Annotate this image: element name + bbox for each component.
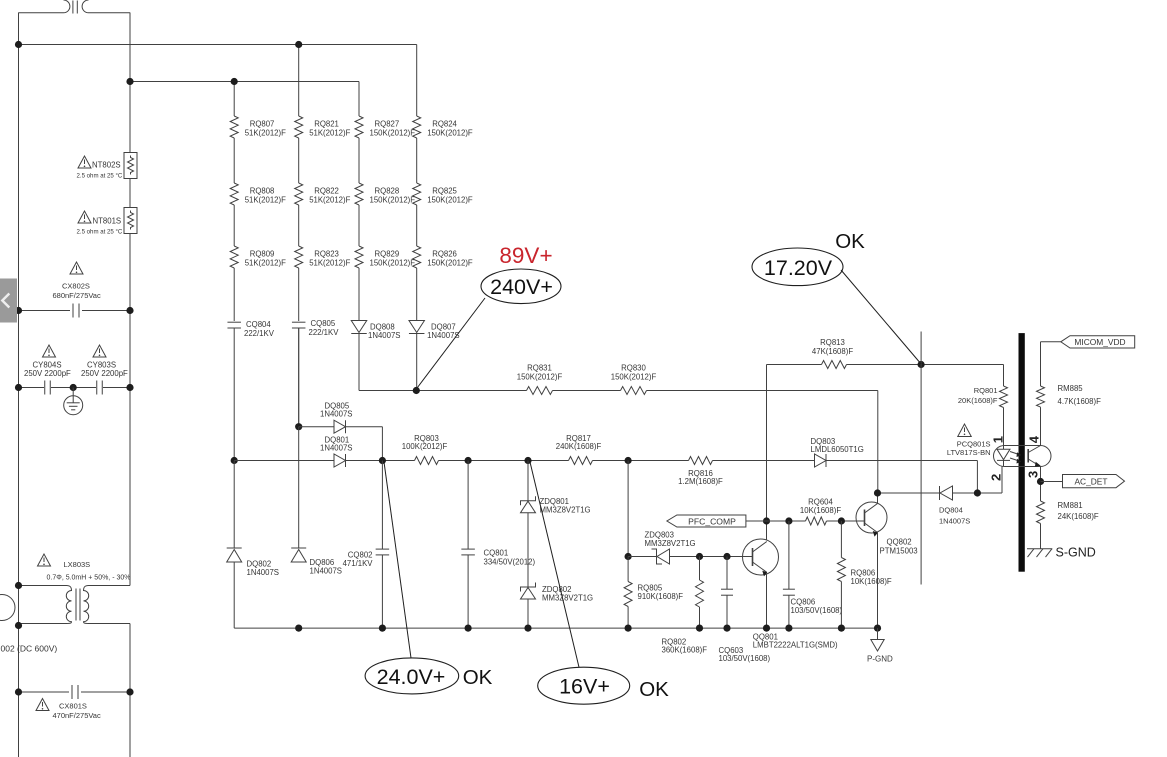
svg-text:RQ824: RQ824 xyxy=(432,120,457,129)
svg-text:RQ826: RQ826 xyxy=(432,250,457,259)
svg-text:1N4007S: 1N4007S xyxy=(247,568,280,577)
svg-text:51K(2012)F: 51K(2012)F xyxy=(245,258,286,267)
svg-text:RQ813: RQ813 xyxy=(820,338,845,347)
svg-text:471/1KV: 471/1KV xyxy=(343,559,374,568)
svg-text:10K(1608)F: 10K(1608)F xyxy=(851,577,892,586)
svg-text:PTM15003: PTM15003 xyxy=(880,547,918,556)
svg-text:150K(2012)F: 150K(2012)F xyxy=(427,258,473,267)
svg-text:RQ831: RQ831 xyxy=(527,364,552,373)
svg-text:AC_DET: AC_DET xyxy=(1074,476,1107,486)
svg-text:RQ829: RQ829 xyxy=(375,250,400,259)
svg-text:240V+: 240V+ xyxy=(490,275,553,299)
svg-text:NT802S: NT802S xyxy=(92,161,121,170)
svg-text:CX801S: CX801S xyxy=(59,702,87,711)
svg-text:NT801S: NT801S xyxy=(93,217,122,226)
svg-text:680nF/275Vac: 680nF/275Vac xyxy=(53,291,101,300)
svg-text:S-GND: S-GND xyxy=(1056,546,1096,560)
svg-text:51K(2012)F: 51K(2012)F xyxy=(245,195,286,204)
svg-text:CQ801: CQ801 xyxy=(484,548,509,557)
svg-text:100K(2012)F: 100K(2012)F xyxy=(402,442,448,451)
svg-text:PFC_COMP: PFC_COMP xyxy=(688,516,736,526)
svg-text:360K(1608)F: 360K(1608)F xyxy=(662,646,708,655)
svg-text:CQ804: CQ804 xyxy=(246,320,271,329)
svg-text:RQ825: RQ825 xyxy=(432,187,457,196)
svg-text:150K(2012)F: 150K(2012)F xyxy=(370,195,416,204)
svg-text:RQ823: RQ823 xyxy=(314,250,339,259)
svg-text:240K(1608)F: 240K(1608)F xyxy=(556,442,602,451)
svg-text:51K(2012)F: 51K(2012)F xyxy=(245,128,286,137)
svg-text:910K(1608)F: 910K(1608)F xyxy=(638,592,684,601)
svg-text:150K(2012)F: 150K(2012)F xyxy=(370,258,416,267)
svg-text:150K(2012)F: 150K(2012)F xyxy=(427,195,473,204)
svg-text:CX802S: CX802S xyxy=(62,282,90,291)
svg-text:RQ821: RQ821 xyxy=(314,120,339,129)
svg-text:51K(2012)F: 51K(2012)F xyxy=(309,195,350,204)
svg-text:MM3Z8V2T1G: MM3Z8V2T1G xyxy=(645,539,696,548)
svg-text:1N4007S: 1N4007S xyxy=(320,444,353,453)
svg-text:1N4007S: 1N4007S xyxy=(310,566,343,575)
svg-text:103/50V(1608): 103/50V(1608) xyxy=(791,606,843,615)
svg-text:17.20V: 17.20V xyxy=(764,256,833,280)
svg-text:OK: OK xyxy=(835,230,865,253)
svg-text:250V 2200pF: 250V 2200pF xyxy=(81,369,128,378)
svg-text:16V+: 16V+ xyxy=(559,674,610,698)
svg-text:1.2M(1608)F: 1.2M(1608)F xyxy=(678,477,723,486)
svg-text:OK: OK xyxy=(639,678,669,701)
svg-text:222/1KV: 222/1KV xyxy=(244,329,275,338)
svg-text:RQ822: RQ822 xyxy=(314,187,339,196)
svg-text:P-GND: P-GND xyxy=(867,655,893,664)
svg-text:470nF/275Vac: 470nF/275Vac xyxy=(53,711,101,720)
svg-text:10K(1608)F: 10K(1608)F xyxy=(800,506,841,515)
svg-text:4.7K(1608)F: 4.7K(1608)F xyxy=(1058,397,1102,406)
svg-text:1N4007S: 1N4007S xyxy=(939,517,970,526)
svg-text:RQ807: RQ807 xyxy=(250,120,275,129)
svg-text:LTV817S-BN: LTV817S-BN xyxy=(947,448,991,457)
svg-text:250V 2200pF: 250V 2200pF xyxy=(24,369,71,378)
svg-text:103/50V(1608): 103/50V(1608) xyxy=(719,654,771,663)
svg-text:RQ801: RQ801 xyxy=(974,386,998,395)
svg-text:QQ802: QQ802 xyxy=(887,538,912,547)
svg-text:RQ828: RQ828 xyxy=(375,187,400,196)
svg-text:RM885: RM885 xyxy=(1058,384,1084,393)
svg-text:CQ805: CQ805 xyxy=(311,319,336,328)
svg-text:2.5 ohm at 25 °C: 2.5 ohm at 25 °C xyxy=(77,173,123,180)
svg-text:51K(2012)F: 51K(2012)F xyxy=(309,128,350,137)
svg-text:150K(2012)F: 150K(2012)F xyxy=(611,373,657,382)
svg-text:002 (DC 600V): 002 (DC 600V) xyxy=(1,644,58,654)
svg-text:150K(2012)F: 150K(2012)F xyxy=(517,373,563,382)
svg-text:24K(1608)F: 24K(1608)F xyxy=(1058,512,1099,521)
svg-text:RM881: RM881 xyxy=(1058,501,1083,510)
svg-text:0.7Φ, 5.0mH + 50%, - 30%: 0.7Φ, 5.0mH + 50%, - 30% xyxy=(47,575,131,582)
svg-text:MM3Z8V2T1G: MM3Z8V2T1G xyxy=(542,594,593,603)
svg-text:150K(2012)F: 150K(2012)F xyxy=(427,128,473,137)
svg-text:2: 2 xyxy=(989,474,1004,481)
svg-text:LMBT2222ALT1G(SMD): LMBT2222ALT1G(SMD) xyxy=(753,641,838,650)
svg-text:1N4007S: 1N4007S xyxy=(368,331,401,340)
svg-text:2.5 ohm at 25 °C: 2.5 ohm at 25 °C xyxy=(77,229,123,236)
svg-text:RQ830: RQ830 xyxy=(621,364,646,373)
svg-text:24.0V+: 24.0V+ xyxy=(377,665,446,689)
svg-text:47K(1608)F: 47K(1608)F xyxy=(812,347,853,356)
svg-text:LX803S: LX803S xyxy=(64,560,91,569)
svg-text:1: 1 xyxy=(991,436,1006,443)
svg-text:DQ804: DQ804 xyxy=(939,506,963,515)
svg-text:RQ808: RQ808 xyxy=(250,187,275,196)
svg-text:150K(2012)F: 150K(2012)F xyxy=(370,128,416,137)
svg-text:1N4007S: 1N4007S xyxy=(320,410,353,419)
svg-text:89V+: 89V+ xyxy=(499,243,552,268)
svg-text:222/1KV: 222/1KV xyxy=(309,328,340,337)
svg-text:RQ827: RQ827 xyxy=(375,120,400,129)
svg-text:4: 4 xyxy=(1027,435,1042,443)
svg-text:MM3Z8V2T1G: MM3Z8V2T1G xyxy=(540,506,591,515)
svg-text:LMDL6050T1G: LMDL6050T1G xyxy=(811,445,864,454)
svg-text:OK: OK xyxy=(463,666,493,689)
svg-text:51K(2012)F: 51K(2012)F xyxy=(309,258,350,267)
svg-text:3: 3 xyxy=(1025,471,1040,478)
svg-text:RQ809: RQ809 xyxy=(250,250,275,259)
svg-text:MICOM_VDD: MICOM_VDD xyxy=(1074,337,1125,347)
svg-text:20K(1608)F: 20K(1608)F xyxy=(958,396,998,405)
